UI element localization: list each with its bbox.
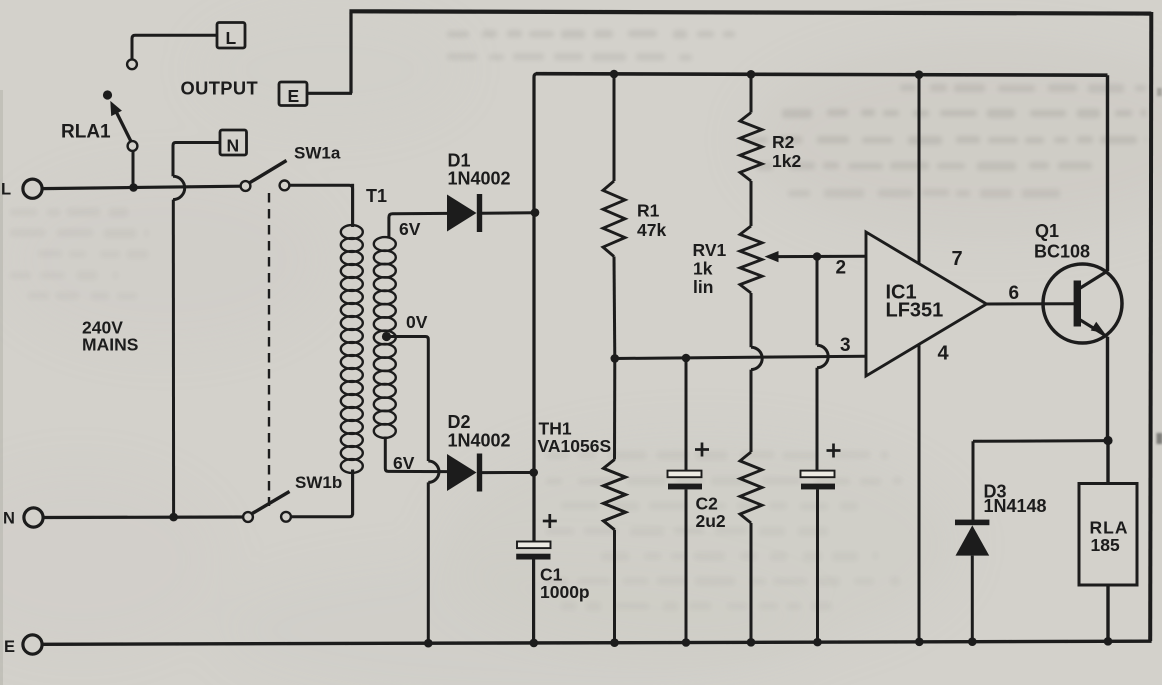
svg-text:E: E <box>4 638 15 656</box>
svg-text:1k2: 1k2 <box>772 151 801 171</box>
svg-text:MAINS: MAINS <box>82 335 138 355</box>
svg-text:2u2: 2u2 <box>696 511 726 531</box>
svg-text:BC108: BC108 <box>1034 242 1090 262</box>
svg-text:7: 7 <box>952 248 963 270</box>
svg-text:R2: R2 <box>772 132 795 152</box>
svg-text:E: E <box>288 86 300 106</box>
svg-text:0V: 0V <box>406 312 428 332</box>
svg-text:47k: 47k <box>637 220 666 240</box>
svg-text:6V: 6V <box>399 219 421 239</box>
svg-text:RLA1: RLA1 <box>61 122 111 143</box>
svg-text:1k: 1k <box>693 259 713 279</box>
svg-text:R1: R1 <box>637 201 660 221</box>
svg-text:4: 4 <box>938 343 950 365</box>
svg-text:RV1: RV1 <box>693 240 727 260</box>
svg-text:N: N <box>3 510 15 528</box>
svg-text:Q1: Q1 <box>1035 221 1059 241</box>
svg-text:T1: T1 <box>366 186 387 206</box>
svg-text:6V: 6V <box>393 453 415 473</box>
svg-text:1N4002: 1N4002 <box>448 431 511 451</box>
svg-text:SW1b: SW1b <box>295 473 342 492</box>
svg-text:LF351: LF351 <box>886 300 944 322</box>
svg-text:N: N <box>227 136 240 156</box>
svg-text:2: 2 <box>836 258 847 279</box>
svg-text:6: 6 <box>1009 283 1020 304</box>
svg-text:OUTPUT: OUTPUT <box>181 78 259 99</box>
svg-text:L: L <box>226 28 237 48</box>
svg-text:185: 185 <box>1091 535 1120 555</box>
svg-text:1N4002: 1N4002 <box>448 169 511 189</box>
svg-text:lin: lin <box>693 277 713 297</box>
svg-text:VA1056S: VA1056S <box>538 436 612 456</box>
svg-text:SW1a: SW1a <box>294 144 341 163</box>
svg-text:1000p: 1000p <box>540 582 590 602</box>
svg-text:L: L <box>1 181 11 199</box>
svg-text:3: 3 <box>840 335 851 356</box>
svg-text:1N4148: 1N4148 <box>984 496 1047 516</box>
svg-text:D1: D1 <box>448 151 471 171</box>
svg-text:D2: D2 <box>448 412 471 432</box>
